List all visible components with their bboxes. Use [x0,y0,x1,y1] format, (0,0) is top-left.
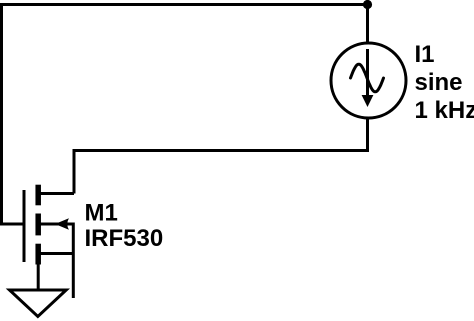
wire dot to source top [366,5,369,44]
wire left vertical [0,3,3,226]
wire drain vertical [73,149,76,194]
ground [10,290,67,317]
wire gate lead [0,223,24,226]
body-source vertical [72,223,75,299]
drain lead [38,192,74,195]
wire source bottom to corner [366,118,369,151]
svg-text:I1: I1 [415,41,435,68]
channel segment bottom [35,244,41,265]
gate bar [23,190,26,262]
source lead [38,252,73,255]
svg-text:1 kHz: 1 kHz [415,97,474,124]
channel segment middle [35,214,41,236]
channel segment top [35,185,41,206]
source stub to ground [37,264,40,291]
body arrowhead [55,218,69,230]
svg-text:M1: M1 [85,200,118,227]
current source I1 [331,43,406,118]
svg-text:sine: sine [415,69,463,96]
junction dot [363,0,372,9]
transistor M1 [24,185,74,298]
wire middle horizontal [74,149,369,152]
wire top horizontal [0,3,368,6]
body lead [40,223,73,226]
svg-text:IRF530: IRF530 [85,225,164,252]
